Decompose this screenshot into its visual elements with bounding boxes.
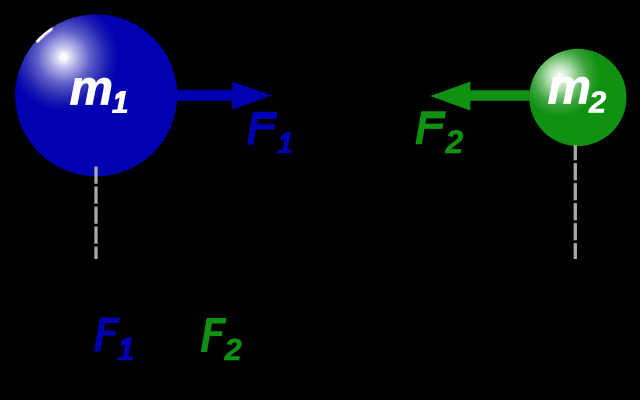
label F1 (upper) <box>247 112 295 153</box>
dashed line below m1 <box>94 167 97 260</box>
force arrow F1 (blue, pointing right) <box>176 82 272 110</box>
svg-text:2: 2 <box>224 332 242 367</box>
bottom label F2 <box>201 318 242 367</box>
label m2 <box>548 61 607 120</box>
label F2 (upper) <box>416 111 464 160</box>
svg-text:m: m <box>70 62 114 116</box>
mass m1 sphere (blue) <box>15 14 177 176</box>
mass m2 sphere (green) <box>529 49 626 146</box>
svg-text:2: 2 <box>588 85 606 120</box>
bottom label F1 <box>94 318 137 361</box>
label m1 <box>70 62 132 116</box>
dashed line below m2 <box>574 145 577 259</box>
svg-text:2: 2 <box>445 124 464 160</box>
svg-text:m: m <box>548 61 592 115</box>
force arrow F2 (green, pointing left) <box>430 82 529 111</box>
